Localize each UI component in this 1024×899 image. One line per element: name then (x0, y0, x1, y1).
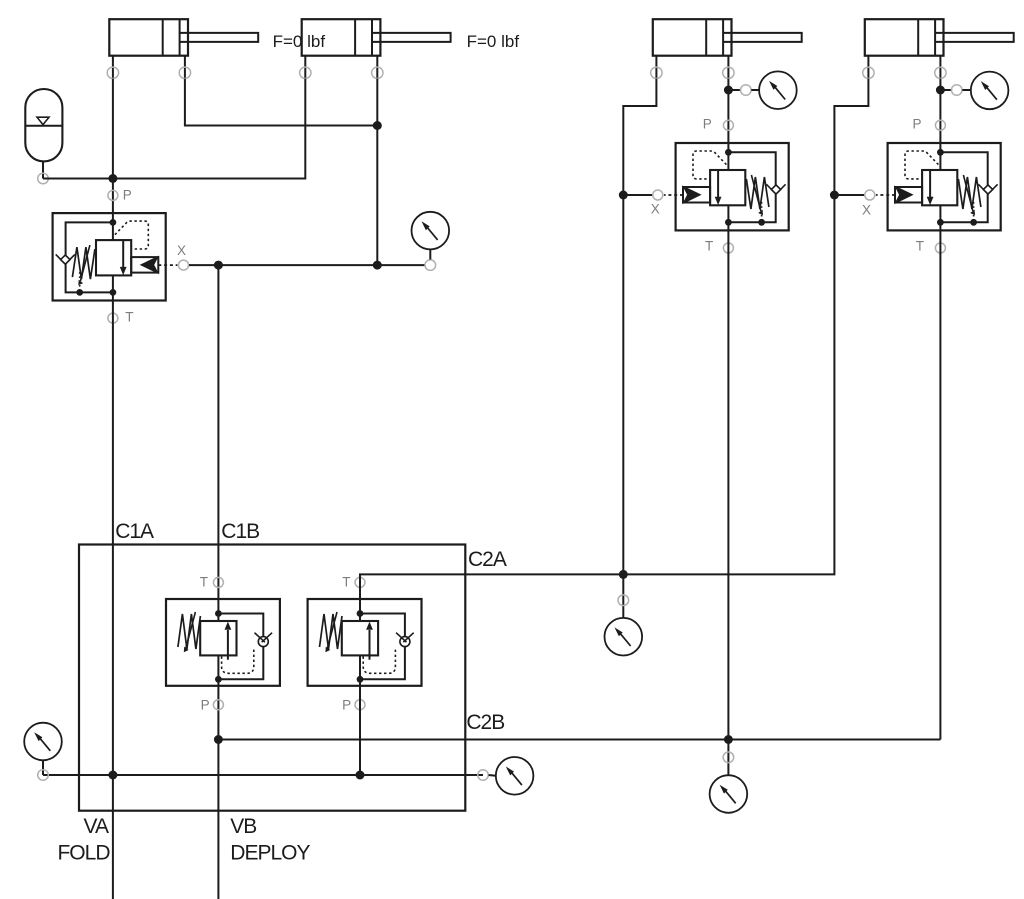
wire valve V3 T down to C2B (727, 230, 729, 775)
svg-text:P: P (342, 697, 351, 712)
wire cylinder A1 right port to A2 right line (185, 79, 377, 126)
svg-text:P: P (912, 116, 921, 131)
wire cylinder B1 left port to X junction riser (623, 79, 656, 618)
gauge G1 port (425, 249, 436, 270)
junction node P (108, 174, 117, 183)
gauge G3 (971, 72, 1009, 110)
wire X line (189, 264, 425, 266)
svg-text:T: T (125, 310, 133, 325)
gauge G6 port (38, 770, 49, 781)
junction V3 T / C2B (724, 735, 733, 744)
gauge G1 (412, 212, 450, 250)
gauge G2 (759, 71, 797, 109)
svg-text:C2A: C2A (468, 548, 507, 571)
gauge G4 port (618, 595, 629, 606)
gauge G5 port (723, 752, 734, 763)
junction X4 (830, 191, 839, 200)
svg-text:X: X (177, 243, 186, 258)
svg-text:C1A: C1A (115, 520, 154, 543)
wire cylinder A1 left port down to valve V1 P (112, 79, 114, 214)
wire C1B (217, 265, 219, 599)
relief valve VB (308, 577, 422, 709)
cylinder B1 (651, 19, 802, 78)
wire cylinder A2 right port down to X line (376, 79, 378, 266)
svg-text:VA: VA (84, 815, 109, 838)
wire valve V4 T down to C2B corner (939, 230, 941, 739)
junction X / C1B (214, 261, 223, 270)
svg-text:T: T (200, 575, 208, 590)
svg-text:X: X (651, 202, 660, 217)
junction X3 (619, 191, 628, 200)
junction VB P (356, 771, 365, 780)
wire cylinder B2 right port to valve V4 (939, 79, 941, 143)
wire C1B lower (217, 686, 219, 899)
gauge G3 port (951, 85, 970, 96)
relief valve VA (166, 577, 280, 709)
gauge G6 stem (42, 760, 44, 775)
gauge G2 port (741, 85, 760, 96)
accumulator (25, 89, 62, 184)
gauge G5 (710, 775, 748, 813)
gauge G7 stem (489, 774, 496, 777)
wire X4 (834, 194, 864, 196)
junction X / A2 (373, 261, 382, 270)
junction C1B / C2B (214, 735, 223, 744)
pressure reducing valve V3 (653, 120, 789, 253)
svg-text:FOLD: FOLD (57, 842, 110, 865)
svg-text:F=0 lbf: F=0 lbf (467, 32, 520, 51)
cylinder A2 (300, 19, 451, 78)
junction B1 gauge (724, 86, 733, 95)
svg-text:P: P (201, 697, 210, 712)
wire C2B horizontal (218, 739, 940, 741)
wire C1A (112, 301, 114, 899)
gauge G6 (24, 723, 62, 761)
gauge G3 stem (940, 89, 952, 91)
svg-text:P: P (703, 116, 712, 131)
junction C2A / gauge G4 (619, 570, 628, 579)
junction A2 right (373, 121, 382, 130)
gauge G2 stem (728, 89, 740, 91)
svg-text:T: T (342, 575, 350, 590)
wire X3 (623, 194, 653, 196)
svg-text:C2B: C2B (466, 711, 504, 734)
svg-text:F=0 lbf: F=0 lbf (273, 32, 326, 51)
svg-text:X: X (862, 203, 871, 218)
wire VB P drop (359, 686, 361, 775)
cylinder A1 (107, 19, 258, 78)
svg-text:T: T (705, 238, 713, 253)
wire VB T riser / C2A (360, 79, 868, 599)
junction B2 gauge (936, 86, 945, 95)
wire bottom gauge line (43, 774, 483, 776)
wire accumulator to node P (43, 178, 113, 180)
svg-text:VB: VB (230, 815, 256, 838)
wire cylinder B1 right port to valve V3 (727, 79, 729, 143)
wire node P to cylinder A2 left port (113, 79, 305, 179)
svg-text:P: P (123, 187, 132, 202)
pressure reducing valve V1 (53, 190, 189, 323)
manifold box (79, 545, 465, 811)
pressure reducing valve V4 (865, 120, 1001, 253)
gauge G7 port (478, 770, 489, 781)
svg-text:T: T (916, 238, 924, 253)
svg-text:C1B: C1B (221, 520, 259, 543)
junction C1A bottom (108, 771, 117, 780)
svg-text:DEPLOY: DEPLOY (230, 842, 310, 865)
gauge G4 (605, 618, 643, 656)
gauge G7 (496, 757, 534, 795)
cylinder B2 (863, 19, 1014, 78)
